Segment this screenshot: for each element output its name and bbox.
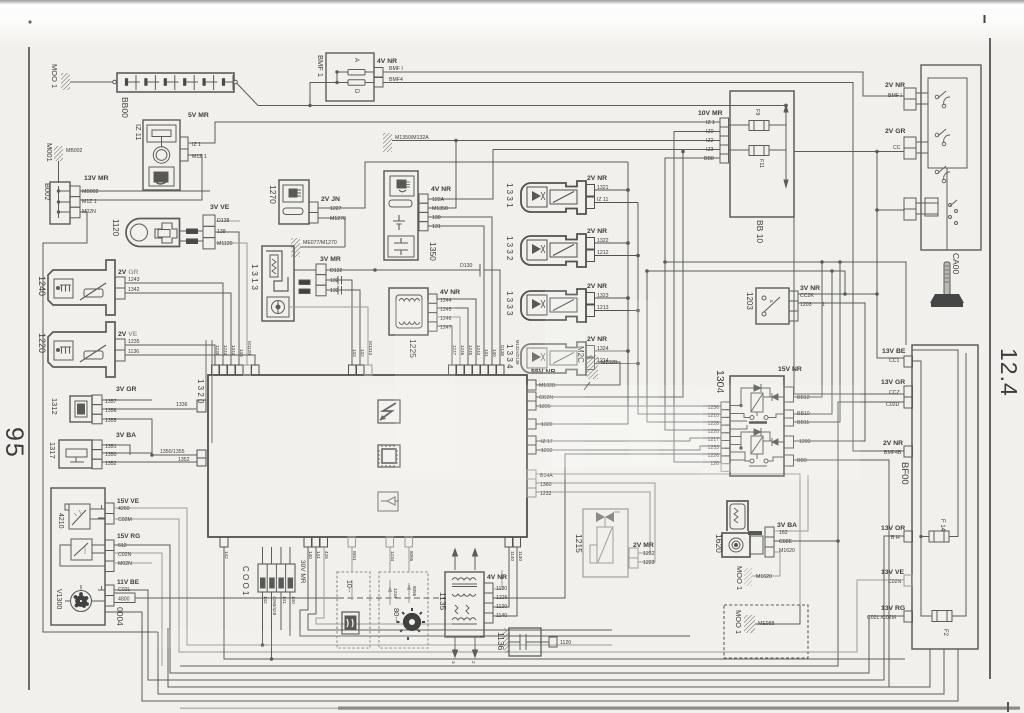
svg-text:1120: 1120 bbox=[560, 640, 571, 646]
wire B14A gray to ME988 bbox=[536, 474, 800, 624]
svg-text:BB 10: BB 10 bbox=[755, 220, 765, 243]
ECU top pins cluster 2 bbox=[349, 365, 373, 375]
svg-text:1 3 3 3: 1 3 3 3 bbox=[505, 291, 514, 316]
wire 1352 to ECU bbox=[102, 461, 197, 463]
relay box dashed 10-- bbox=[337, 547, 370, 648]
injection relay box 1350 bbox=[384, 171, 428, 260]
labels bottom center bbox=[241, 560, 571, 664]
svg-text:IZ3: IZ3 bbox=[706, 147, 714, 153]
svg-text:B002: B002 bbox=[43, 183, 52, 201]
svg-text:MB002: MB002 bbox=[66, 148, 83, 154]
wire 1360 gray bbox=[536, 483, 655, 562]
junction box B002 bbox=[50, 182, 80, 224]
labels ECU bbox=[196, 341, 556, 562]
svg-text:141: 141 bbox=[316, 551, 321, 559]
wire 1355 down bbox=[102, 419, 152, 455]
ECU top pins cluster 3 bbox=[449, 365, 505, 375]
svg-text:5V MR: 5V MR bbox=[188, 112, 209, 119]
sensor 1240 bbox=[48, 260, 125, 315]
svg-text:2V NR: 2V NR bbox=[587, 175, 607, 182]
svg-text:132: 132 bbox=[360, 349, 365, 357]
svg-text:131: 131 bbox=[432, 224, 441, 230]
svg-text:130: 130 bbox=[492, 349, 497, 357]
ground M001 gray bbox=[744, 568, 752, 586]
wire M132B bbox=[536, 362, 620, 385]
fuse F14 bbox=[929, 531, 949, 542]
wire M1Z1 to B002 bbox=[80, 155, 202, 200]
svg-text:4V NR: 4V NR bbox=[487, 574, 507, 581]
svg-text:CA00: CA00 bbox=[951, 253, 961, 275]
svg-text:P: P bbox=[770, 299, 773, 304]
wire M02N gray bbox=[114, 562, 152, 564]
svg-text:1226: 1226 bbox=[496, 595, 508, 601]
svg-text:1350: 1350 bbox=[105, 452, 117, 458]
svg-text:MB002: MB002 bbox=[82, 189, 99, 195]
ECU top pins cluster 1 bbox=[212, 365, 260, 375]
svg-text:1323: 1323 bbox=[597, 293, 609, 299]
svg-text:1317: 1317 bbox=[48, 442, 57, 459]
svg-text:CCZ: CCZ bbox=[889, 390, 900, 396]
ECU bottom pin gray 8055 bbox=[405, 537, 413, 547]
svg-text:1220: 1220 bbox=[37, 333, 47, 353]
wire IZ0 down to 1304 bbox=[674, 132, 721, 463]
svg-text:IB51: IB51 bbox=[352, 551, 357, 561]
wire injector 1333 pin2 bbox=[595, 297, 629, 299]
corridor wire BB12 bus bbox=[665, 262, 906, 345]
wire C02L gray bbox=[114, 536, 904, 680]
connector strip BB00 bbox=[113, 73, 238, 92]
wire 1342 to ECU bbox=[125, 293, 231, 365]
panel wires bbox=[105, 508, 958, 701]
svg-text:IZ 1: IZ 1 bbox=[706, 120, 715, 126]
wire 1226 from 1135 to 1304 bbox=[493, 454, 721, 598]
ECU right side wires bbox=[493, 150, 800, 624]
svg-text:1 3 1 3: 1 3 1 3 bbox=[250, 264, 260, 290]
svg-text:1136: 1136 bbox=[128, 349, 139, 355]
svg-text:D138: D138 bbox=[217, 218, 230, 224]
svg-text:15V RG: 15V RG bbox=[117, 533, 140, 540]
svg-text:M1313: M1313 bbox=[368, 341, 373, 355]
svg-text:2V MR: 2V MR bbox=[633, 542, 654, 549]
svg-text:M1270: M1270 bbox=[330, 216, 346, 222]
svg-text:1227: 1227 bbox=[330, 206, 342, 212]
1135 arrows bbox=[453, 549, 478, 657]
svg-text:C02E: C02E bbox=[779, 539, 793, 545]
svg-text:3V VE: 3V VE bbox=[210, 204, 230, 211]
wire 4260 gray bbox=[114, 508, 612, 645]
svg-text:BMF 1: BMF 1 bbox=[316, 55, 325, 77]
svg-text:1235: 1235 bbox=[128, 339, 140, 345]
svg-text:4V NR: 4V NR bbox=[377, 58, 397, 65]
svg-text:2: 2 bbox=[471, 661, 476, 664]
wire injector 1334 pin2 bbox=[595, 350, 629, 352]
svg-text:1234: 1234 bbox=[390, 551, 395, 562]
wire 1356 to ECU pin 1336 bbox=[102, 408, 196, 410]
wire injector 1333 pin1 bbox=[595, 310, 639, 312]
svg-text:80--: 80-- bbox=[392, 608, 401, 622]
C001 down stubs bbox=[262, 592, 264, 645]
svg-text:1352: 1352 bbox=[178, 457, 190, 463]
svg-text:1355: 1355 bbox=[105, 418, 117, 424]
frame tick top-right bbox=[984, 15, 986, 23]
wires BB12/BB10/BB11 risers bbox=[794, 262, 823, 397]
condenser 1136 bbox=[504, 628, 557, 656]
svg-text:4V NR: 4V NR bbox=[440, 289, 460, 296]
svg-text:4V NR: 4V NR bbox=[431, 186, 451, 193]
svg-text:1234: 1234 bbox=[393, 588, 398, 599]
wire D132 bus with capacitor D130 bbox=[326, 264, 500, 365]
wire BMF1 pin A to CA00 bbox=[383, 72, 904, 96]
ECU icon lightning bbox=[378, 400, 400, 423]
svg-text:1215: 1215 bbox=[574, 534, 584, 553]
svg-text:M1Z 1: M1Z 1 bbox=[82, 199, 97, 205]
svg-text:133: 133 bbox=[352, 349, 357, 357]
ECU box 1320 bbox=[208, 375, 527, 537]
svg-text:4800: 4800 bbox=[118, 597, 130, 603]
svg-text:140: 140 bbox=[308, 551, 313, 559]
svg-text:D138: D138 bbox=[500, 345, 505, 356]
ground M001 (MB002) bbox=[54, 146, 63, 183]
ECU left pin 1336 bbox=[182, 400, 206, 412]
svg-text:1130: 1130 bbox=[518, 551, 523, 561]
double relay 1304 bbox=[721, 376, 794, 476]
relay box BMF1 bbox=[326, 53, 383, 101]
svg-text:10--: 10-- bbox=[345, 580, 352, 593]
wire loop3 bbox=[105, 612, 958, 701]
svg-text:142: 142 bbox=[224, 551, 229, 559]
svg-text:BB00: BB00 bbox=[120, 97, 130, 118]
svg-text:IZ0: IZ0 bbox=[706, 129, 714, 135]
svg-text:2V NR: 2V NR bbox=[587, 283, 607, 290]
svg-text:MOO 1: MOO 1 bbox=[50, 64, 59, 88]
svg-text:8055: 8055 bbox=[409, 551, 414, 562]
svg-text:2V NR: 2V NR bbox=[883, 440, 903, 447]
svg-text:1212: 1212 bbox=[597, 250, 609, 256]
wire M1313 gray bbox=[289, 307, 368, 365]
svg-text:D132: D132 bbox=[330, 268, 343, 274]
svg-text:95: 95 bbox=[0, 427, 28, 459]
wire 1227 up to bus bbox=[318, 162, 628, 208]
wire CC2N up bbox=[536, 152, 683, 398]
svg-text:MOO 1: MOO 1 bbox=[735, 566, 744, 590]
svg-text:1203: 1203 bbox=[745, 292, 754, 310]
wire 1351 bbox=[102, 445, 130, 455]
svg-text:C02L: C02L bbox=[118, 587, 131, 593]
wire BB9 bbox=[794, 460, 890, 687]
wires 140/141/426 loops bbox=[300, 547, 690, 636]
svg-text:F 14: F 14 bbox=[939, 519, 945, 532]
ignition switch assembly CA00 bbox=[904, 65, 981, 250]
ignition module 1135 bbox=[445, 572, 493, 637]
wire injector 1332 pin1 bbox=[595, 255, 639, 257]
svg-text:3V NR: 3V NR bbox=[800, 285, 820, 292]
svg-text:162: 162 bbox=[779, 530, 788, 536]
svg-text:1120: 1120 bbox=[111, 219, 120, 237]
svg-text:2V JN: 2V JN bbox=[321, 196, 340, 203]
svg-text:IZ 1: IZ 1 bbox=[192, 142, 201, 148]
svg-text:M1Z 1: M1Z 1 bbox=[192, 154, 207, 160]
page frame right bbox=[989, 38, 991, 679]
wire C02M gray bbox=[114, 519, 904, 652]
svg-text:1243: 1243 bbox=[223, 345, 228, 356]
wire BB00 to right bus bbox=[237, 83, 787, 106]
labels right bbox=[698, 82, 961, 464]
wire 1350/1355 merged to ECU bbox=[102, 453, 197, 455]
svg-text:1135: 1135 bbox=[438, 592, 448, 611]
wire M1620 gray to ground bbox=[752, 552, 780, 576]
svg-text:13V VE: 13V VE bbox=[881, 569, 905, 576]
fuel gauge bbox=[60, 539, 114, 572]
wire M1270 to ground bbox=[318, 218, 345, 247]
svg-text:3V BA: 3V BA bbox=[116, 432, 136, 439]
svg-text:30V MR: 30V MR bbox=[299, 560, 306, 584]
top scan band bbox=[0, 0, 1024, 46]
injector bus vertical x638 bbox=[638, 203, 721, 415]
svg-text:M1350/M132A: M1350/M132A bbox=[395, 135, 429, 141]
wire loop2 bbox=[158, 632, 944, 694]
svg-text:1352: 1352 bbox=[105, 461, 117, 467]
svg-text:1243: 1243 bbox=[128, 277, 140, 283]
svg-text:1336: 1336 bbox=[176, 402, 188, 408]
wire injector 1334 pin1 bbox=[595, 363, 639, 365]
svg-text:612: 612 bbox=[118, 543, 127, 549]
speck top-left bbox=[28, 20, 31, 23]
wire 1235 to ECU bbox=[125, 345, 215, 365]
wire 133 with cap to ECU bbox=[326, 286, 360, 365]
svg-text:11V BE: 11V BE bbox=[117, 579, 140, 586]
svg-text:1244: 1244 bbox=[476, 345, 481, 356]
svg-text:4260/428: 4260/428 bbox=[272, 596, 277, 616]
svg-text:1245: 1245 bbox=[468, 345, 473, 356]
wire injector 1331 pin1 bbox=[595, 202, 639, 204]
fuse box BF00 bbox=[904, 345, 978, 649]
svg-text:132: 132 bbox=[330, 278, 339, 284]
svg-text:1324: 1324 bbox=[597, 346, 609, 352]
svg-text:1 3 3 4: 1 3 3 4 bbox=[505, 344, 514, 369]
wire BB10 output to BF00 13V GR CCZ bbox=[794, 217, 904, 394]
wire ECU left edge risers bbox=[205, 340, 207, 400]
ignition key bbox=[930, 262, 964, 307]
wire injector 1332 pin2 bbox=[595, 242, 629, 244]
wire 1130 gray bbox=[493, 570, 502, 589]
svg-text:D: D bbox=[353, 89, 359, 94]
svg-text:M1620: M1620 bbox=[756, 574, 772, 580]
svg-text:1: 1 bbox=[822, 302, 825, 308]
svg-text:2V GR: 2V GR bbox=[885, 128, 905, 135]
svg-text:M1620: M1620 bbox=[779, 548, 795, 554]
svg-text:M132B: M132B bbox=[601, 360, 618, 366]
fuse F9 bbox=[729, 121, 787, 131]
idle actuator 1120 bbox=[126, 215, 215, 249]
svg-text:1232: 1232 bbox=[643, 551, 655, 557]
page frame left bbox=[28, 47, 30, 690]
ECU left pins 1350/1352 bbox=[197, 450, 206, 466]
svg-text:140: 140 bbox=[291, 596, 296, 604]
injector bus vertical x628 bbox=[627, 162, 629, 424]
wire IZ2 from ground M1350 bbox=[456, 140, 720, 142]
svg-text:13V RG: 13V RG bbox=[881, 605, 905, 612]
svg-text:F2: F2 bbox=[942, 629, 948, 637]
svg-text:1351: 1351 bbox=[105, 444, 117, 450]
svg-text:1 3 3 2: 1 3 3 2 bbox=[505, 236, 514, 261]
ground MOO1 top-left bbox=[61, 73, 114, 90]
connector C001 bbox=[258, 564, 295, 592]
sensor 1220 bbox=[48, 322, 125, 377]
svg-text:BF00: BF00 bbox=[899, 462, 910, 485]
svg-text:2V GR: 2V GR bbox=[118, 269, 138, 276]
wires 1120/1140 to ECU bbox=[493, 547, 509, 607]
svg-text:C02D: C02D bbox=[886, 402, 900, 408]
wire injector 1331 pin2 bbox=[595, 189, 629, 191]
svg-text:2V NR: 2V NR bbox=[587, 336, 607, 343]
relay box dashed 80-- bbox=[379, 547, 428, 648]
svg-text:M1350: M1350 bbox=[432, 206, 448, 212]
svg-text:IZ 11: IZ 11 bbox=[134, 124, 143, 141]
svg-text:1240: 1240 bbox=[37, 276, 47, 296]
ground M2C bbox=[584, 355, 598, 390]
svg-text:1235: 1235 bbox=[215, 345, 220, 356]
svg-text:1356: 1356 bbox=[105, 408, 117, 414]
fuel pump unit IZ11 bbox=[143, 120, 188, 190]
svg-text:1203: 1203 bbox=[800, 302, 812, 308]
fuse F11 bbox=[729, 146, 787, 156]
wire M1120 to ECU bbox=[215, 243, 247, 365]
throttle housing 1313 bbox=[262, 246, 326, 321]
wire MB002 bbox=[80, 190, 210, 192]
labels injectors bbox=[505, 175, 618, 369]
ECU bottom pin gray 1234 bbox=[386, 537, 394, 547]
wire 1228 riser bbox=[647, 271, 721, 422]
svg-text:13V MR: 13V MR bbox=[84, 175, 109, 182]
svg-text:1343: 1343 bbox=[231, 345, 236, 356]
engine ground box M001 dashed bbox=[724, 605, 808, 658]
svg-text:133: 133 bbox=[330, 288, 339, 294]
wire 142 from ECU down bbox=[224, 547, 905, 659]
svg-text:C O O 1: C O O 1 bbox=[241, 566, 250, 596]
svg-text:IZ 11: IZ 11 bbox=[597, 197, 609, 203]
svg-text:142: 142 bbox=[263, 596, 268, 604]
parking switch 1203 bbox=[756, 288, 798, 324]
BF00 inner wiring bbox=[913, 350, 967, 616]
labels BF00 zone bbox=[574, 348, 948, 637]
ignition coil pack 1225 bbox=[389, 288, 437, 335]
svg-text:1 3 2 0: 1 3 2 0 bbox=[196, 379, 205, 404]
svg-text:IZ2: IZ2 bbox=[706, 138, 714, 144]
svg-text:F9: F9 bbox=[754, 109, 760, 115]
ECU icon injector bbox=[378, 492, 399, 511]
svg-text:1321: 1321 bbox=[597, 185, 609, 191]
fuse box BB10 bbox=[720, 91, 794, 217]
svg-text:4210: 4210 bbox=[57, 513, 64, 529]
wire IZ3 from 122A bbox=[428, 150, 720, 200]
svg-text:M132A/D138: M132A/D138 bbox=[515, 340, 520, 365]
svg-text:141: 141 bbox=[282, 596, 287, 604]
injector 1333 bbox=[521, 289, 595, 322]
svg-text:BMF4: BMF4 bbox=[389, 77, 403, 83]
wire 1320 up bbox=[536, 423, 628, 425]
svg-text:1 3 3 1: 1 3 3 1 bbox=[505, 183, 514, 208]
wire 1233 to 1304 bbox=[536, 446, 721, 450]
ground M1350/M132A bbox=[383, 133, 456, 208]
svg-text:ME988: ME988 bbox=[758, 621, 775, 627]
svg-text:12.4: 12.4 bbox=[996, 348, 1022, 397]
svg-text:1357: 1357 bbox=[105, 399, 117, 405]
svg-text:15V VE: 15V VE bbox=[117, 498, 140, 505]
svg-text:F11: F11 bbox=[758, 159, 764, 168]
rev counter V1300 bbox=[65, 585, 135, 612]
svg-text:1312: 1312 bbox=[50, 398, 59, 415]
svg-text:M1120: M1120 bbox=[217, 241, 233, 247]
svg-text:4260: 4260 bbox=[118, 506, 130, 512]
wire 131 to ECU bbox=[428, 226, 484, 365]
ECU icon IC chip bbox=[378, 445, 400, 467]
wire M02N via left margin bbox=[43, 212, 158, 632]
svg-text:0004: 0004 bbox=[115, 607, 125, 626]
svg-text:D130: D130 bbox=[460, 263, 473, 269]
svg-text:2V NR: 2V NR bbox=[587, 228, 607, 235]
speed sensor 1620 bbox=[722, 501, 774, 557]
svg-text:10V MR: 10V MR bbox=[698, 110, 723, 117]
svg-text:13V OR: 13V OR bbox=[881, 525, 905, 532]
svg-text:1270: 1270 bbox=[268, 185, 278, 204]
svg-text:1350/1355: 1350/1355 bbox=[160, 449, 185, 455]
svg-text:1342: 1342 bbox=[128, 287, 140, 293]
wires 1244-1247 to ECU bbox=[437, 299, 476, 365]
ECU bottom pins 140/141/426 bbox=[304, 537, 328, 547]
bottom scan band bbox=[338, 707, 1020, 710]
svg-text:3: 3 bbox=[451, 661, 456, 664]
svg-text:M02N: M02N bbox=[82, 209, 96, 215]
svg-text:ME077/M1270: ME077/M1270 bbox=[303, 240, 337, 246]
corridor wire CC2K bus bbox=[647, 271, 845, 294]
svg-text:C02N: C02N bbox=[118, 552, 132, 558]
wire IZ1 to BB10 bbox=[188, 122, 720, 143]
svg-text:13V GR: 13V GR bbox=[881, 379, 905, 386]
svg-text:1140: 1140 bbox=[510, 551, 515, 561]
ECU bottom pins 1120/1140 bbox=[505, 537, 521, 547]
svg-text:BMF I: BMF I bbox=[888, 93, 902, 99]
cold start injector 1270 bbox=[279, 180, 318, 224]
svg-text:426: 426 bbox=[324, 551, 329, 559]
wire D138 short bbox=[215, 220, 240, 222]
svg-text:CC: CC bbox=[893, 145, 901, 151]
svg-text:3V BA: 3V BA bbox=[777, 522, 797, 529]
wire 132 with cap to ECU bbox=[326, 276, 352, 365]
wire into BMF1 from bus bbox=[310, 83, 337, 106]
wire BB8 down to 1304 1220 bbox=[665, 158, 721, 430]
wire 1232 gray to 1215 bbox=[536, 492, 650, 553]
econometer 4210 bbox=[65, 503, 114, 529]
svg-text:CC1: CC1 bbox=[889, 358, 899, 364]
labels 0004 bbox=[55, 498, 140, 626]
svg-text:MOO 1: MOO 1 bbox=[734, 610, 743, 634]
svg-text:V1300: V1300 bbox=[55, 589, 62, 609]
svg-text:122A: 122A bbox=[432, 197, 445, 203]
svg-text:131: 131 bbox=[484, 349, 489, 357]
wire 1236 to 1304 bbox=[536, 405, 721, 407]
wire BMF4 to BF00 2V NR bbox=[383, 83, 904, 452]
svg-text:2V NR: 2V NR bbox=[885, 82, 905, 89]
svg-text:1246: 1246 bbox=[460, 345, 465, 356]
wire CC2K branch down bbox=[798, 150, 904, 358]
svg-text:1130: 1130 bbox=[496, 586, 507, 592]
C001 stubs up bbox=[262, 547, 264, 564]
injector 1334 bbox=[521, 342, 595, 375]
wire C02D down to bottom loop bbox=[180, 402, 904, 666]
fuse F2 bbox=[932, 611, 952, 622]
ECU right pins bbox=[527, 380, 536, 497]
wire C02E bbox=[774, 540, 838, 542]
